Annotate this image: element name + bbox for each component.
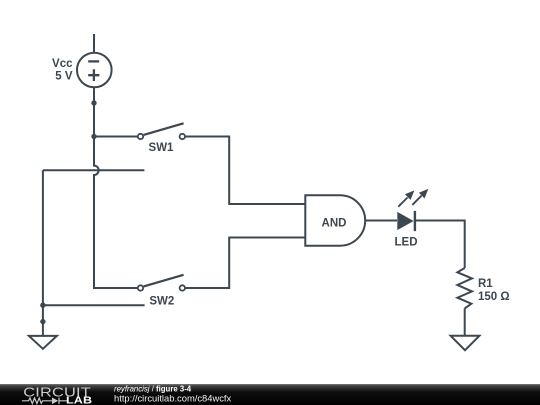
svg-text:LED: LED xyxy=(395,237,418,249)
node dot below source xyxy=(91,100,96,105)
svg-text:SW1: SW1 xyxy=(149,142,175,154)
svg-text:150 Ω: 150 Ω xyxy=(478,291,510,303)
switch SW2 xyxy=(138,275,185,291)
voltage source Vcc 5V xyxy=(77,53,112,88)
wire left vertical to ground xyxy=(42,170,44,335)
switch SW1 xyxy=(138,123,185,139)
resistor R1 xyxy=(457,268,472,308)
svg-text:R1: R1 xyxy=(478,278,493,290)
footer bar xyxy=(0,384,540,405)
svg-text:AND: AND xyxy=(322,217,347,229)
wire SW2 to AND input 2 xyxy=(186,238,306,289)
wire main vertical from source with hop over stub xyxy=(94,87,137,288)
wire LED to R1 xyxy=(415,221,465,269)
node dot ground terminal xyxy=(40,319,45,324)
wire SW1 to AND input 1 xyxy=(186,137,306,205)
wire R1 to ground xyxy=(464,308,466,335)
node dot left junction xyxy=(40,303,45,308)
wire Vcc top stub xyxy=(93,34,95,53)
ground right xyxy=(451,336,480,350)
svg-text:5 V: 5 V xyxy=(55,70,73,82)
diode LED xyxy=(397,189,428,231)
svg-text:LAB: LAB xyxy=(66,396,92,405)
svg-text:http://circuitlab.com/c84wcfx: http://circuitlab.com/c84wcfx xyxy=(114,393,232,404)
logo CircuitLab xyxy=(22,386,92,405)
node dot at SW1 tap xyxy=(91,134,96,139)
AND gate xyxy=(305,195,365,245)
wire to SW1 left terminal xyxy=(94,136,137,138)
wire stub lower left xyxy=(43,304,145,306)
svg-text:SW2: SW2 xyxy=(149,295,174,307)
ground left xyxy=(29,336,57,349)
svg-text:Vcc: Vcc xyxy=(52,58,73,70)
wire stub upper left xyxy=(43,169,144,171)
wire AND output to LED xyxy=(365,220,397,222)
